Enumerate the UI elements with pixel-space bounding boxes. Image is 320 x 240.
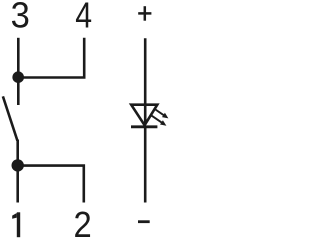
switch S blade (open) [3,96,18,140]
svg-text:3: 3 [11,0,30,36]
junction dot node 1/2 [12,159,24,171]
minus terminal label [138,220,150,223]
LED cathode lead to - [144,127,147,203]
LED light arrow 1 [154,108,169,118]
plus terminal label [138,6,151,21]
terminal label 1 [12,212,20,237]
svg-text:4: 4 [75,0,92,36]
svg-text:2: 2 [73,206,91,239]
LED cathode bar [131,125,157,128]
wire junction to terminal 2 (corner) [18,166,84,203]
wire blade pivot down to terminal 1 [16,140,19,203]
LED triangle [131,105,157,126]
wire junction to terminal 4 (corner) [18,38,84,78]
LED light arrow 2 [150,115,166,126]
junction dot node 3/4 [12,71,24,83]
LED anode lead from + [144,38,147,125]
wire terminal 3 lead into junction [17,38,20,77]
switch S fixed contact stub [17,77,20,105]
